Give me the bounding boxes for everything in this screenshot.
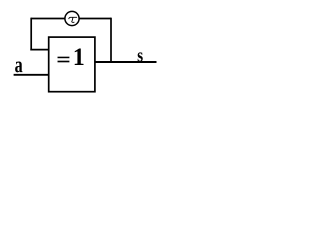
wire: feedback into gate input [30, 49, 48, 51]
wire: left feedback vertical [30, 18, 32, 51]
node a (input label) [15, 62, 22, 73]
delay element tau [65, 11, 79, 25]
wire: tau output left segment [31, 18, 65, 20]
wire: right feedback vertical [110, 18, 112, 62]
gate U1 (=1 box) [49, 37, 95, 92]
wire: output s [95, 61, 157, 63]
wire: input a [14, 74, 49, 76]
wire: tau input right segment [79, 18, 111, 20]
node s (output label) [138, 52, 143, 61]
